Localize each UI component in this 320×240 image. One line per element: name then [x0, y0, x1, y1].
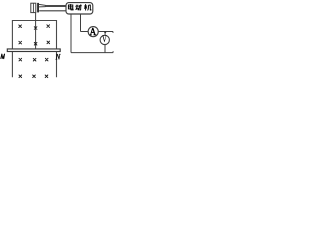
rod MN — [7, 49, 60, 52]
voltmeter V — [100, 35, 109, 44]
voltmeter bottom lead wire — [104, 44, 106, 52]
belt lower run — [39, 10, 66, 12]
pulley block — [31, 3, 36, 12]
top wire end hook — [112, 32, 114, 33]
bottom wire — [71, 52, 113, 54]
motor lead left wire — [70, 14, 72, 53]
label N — [55, 54, 60, 59]
background — [0, 0, 116, 83]
label 电动机 (hand-drawn glyphs) — [68, 4, 91, 10]
field symbols x (into page) — [19, 25, 50, 78]
belt upper run top stub — [39, 3, 46, 6]
bottom wire end hook — [112, 51, 114, 52]
pulley shaft bar — [37, 3, 39, 13]
motor lead right wire — [80, 14, 82, 32]
x row1 — [19, 25, 22, 28]
glyph 电 — [68, 4, 73, 10]
belt upper run bottom stub — [39, 6, 46, 8]
rail frame (field region boundary, open bottom) — [12, 21, 56, 78]
top wire — [81, 31, 114, 33]
motor box U1 — [66, 3, 93, 14]
ammeter A — [88, 27, 98, 37]
belt upper run band — [45, 5, 66, 7]
letter A — [90, 28, 96, 35]
x row4 — [19, 75, 22, 78]
label M — [1, 54, 5, 58]
glyph 机 — [84, 4, 91, 10]
x row2 — [19, 41, 22, 44]
string from pulley to rod — [35, 13, 37, 49]
x row3 — [19, 58, 22, 61]
pulley groove line — [32, 3, 34, 12]
junction node dot — [104, 31, 106, 33]
glyph 动 — [75, 4, 81, 10]
letter V — [102, 35, 107, 42]
voltmeter top lead wire — [104, 32, 106, 35]
